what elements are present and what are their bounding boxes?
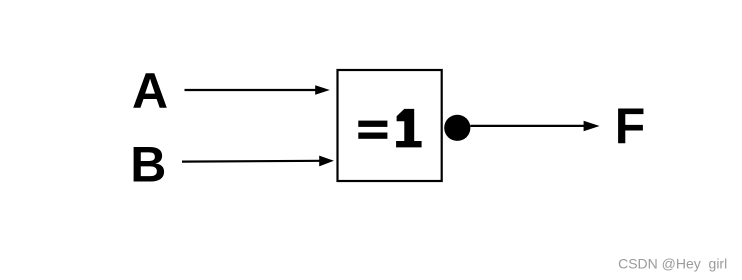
svg-text:B: B [130,137,166,193]
arrowhead output F [584,121,600,131]
wire output F [470,125,585,127]
inversion bubble [444,115,470,141]
gate function label =1 (equals sign) [358,121,387,139]
svg-text:F: F [615,98,646,154]
svg-text:CSDN @Hey girl: CSDN @Hey girl [618,256,727,272]
svg-text:A: A [132,63,168,119]
gate function label =1 (digit 1) [396,109,422,147]
wire input B [182,160,321,163]
arrowhead input A [315,85,330,95]
wire input A [185,89,317,91]
arrowhead input B [319,156,334,167]
XNOR gate body U1 [338,70,442,181]
